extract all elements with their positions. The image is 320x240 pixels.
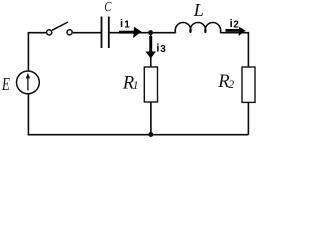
svg-text:3: 3 <box>160 44 166 55</box>
svg-text:i: i <box>156 43 159 55</box>
svg-text:i: i <box>120 18 123 30</box>
svg-text:1: 1 <box>133 80 139 92</box>
svg-text:E: E <box>1 74 10 94</box>
svg-text:2: 2 <box>228 79 234 91</box>
svg-text:L: L <box>193 0 204 20</box>
svg-text:2: 2 <box>233 20 239 31</box>
svg-text:1: 1 <box>124 20 130 31</box>
svg-text:C: C <box>104 0 111 15</box>
